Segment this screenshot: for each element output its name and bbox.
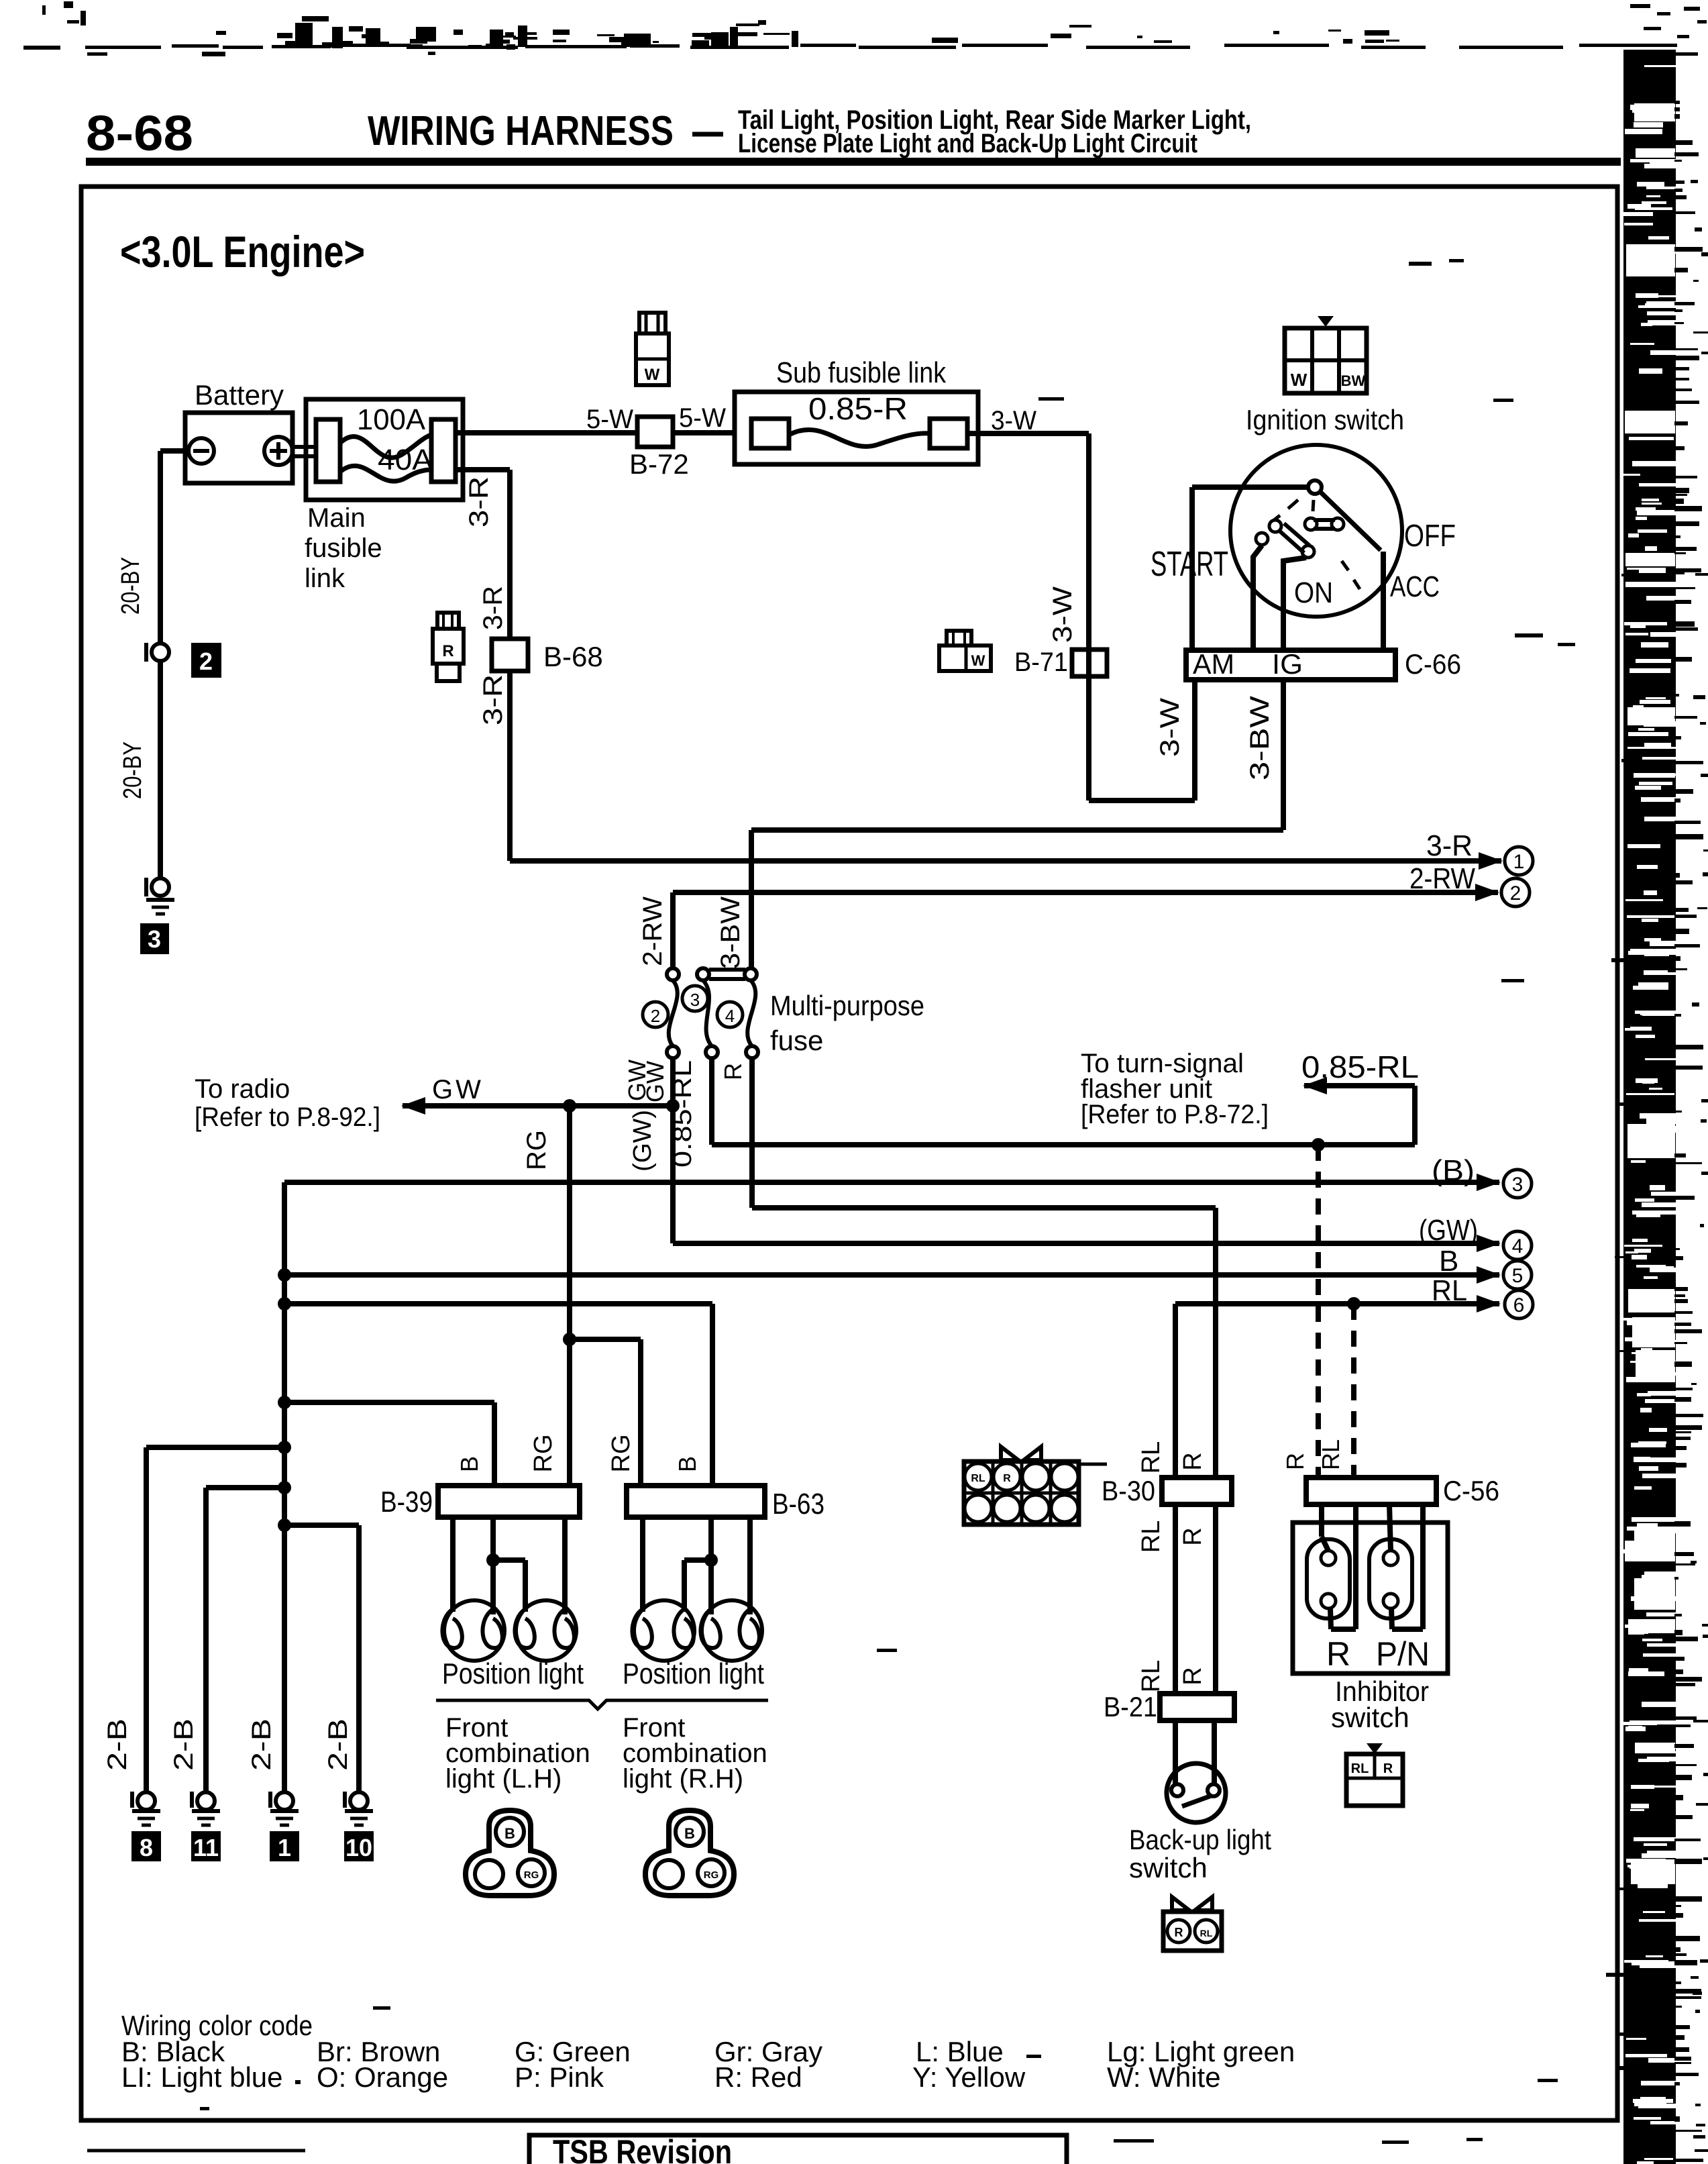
svg-text:B-30: B-30 xyxy=(1102,1475,1155,1506)
svg-text:Multi-purpose: Multi-purpose xyxy=(770,990,924,1021)
svg-text:(B): (B) xyxy=(1432,1154,1475,1187)
svg-text:10: 10 xyxy=(345,1834,372,1861)
svg-text:B-68: B-68 xyxy=(543,641,603,672)
svg-text:3-R: 3-R xyxy=(1426,829,1473,862)
svg-text:3-R: 3-R xyxy=(478,674,508,725)
svg-text:3: 3 xyxy=(690,990,700,1010)
svg-text:B: B xyxy=(504,1825,515,1842)
svg-text:3-BW: 3-BW xyxy=(1245,696,1275,780)
svg-text:(GW): (GW) xyxy=(629,1110,657,1172)
svg-text:fuse: fuse xyxy=(770,1025,823,1056)
svg-text:2-RW: 2-RW xyxy=(1409,862,1475,895)
svg-text:fusible: fusible xyxy=(305,533,382,563)
svg-text:LI: Light blue: LI: Light blue xyxy=(121,2061,283,2093)
svg-text:<3.0L Engine>: <3.0L Engine> xyxy=(120,227,365,276)
svg-text:Position light: Position light xyxy=(442,1657,584,1690)
svg-text:R: R xyxy=(1281,1453,1309,1470)
svg-text:6: 6 xyxy=(1513,1294,1525,1317)
svg-text:P: Pink: P: Pink xyxy=(515,2061,604,2093)
svg-text:1: 1 xyxy=(1513,851,1525,873)
svg-text:B: B xyxy=(456,1456,483,1472)
svg-text:2: 2 xyxy=(199,648,213,675)
svg-text:RG: RG xyxy=(524,1869,539,1881)
svg-text:5: 5 xyxy=(1512,1265,1524,1287)
svg-text:3: 3 xyxy=(1512,1174,1524,1196)
svg-text:4: 4 xyxy=(1512,1235,1524,1257)
svg-text:B-71: B-71 xyxy=(1014,648,1068,677)
svg-text:RL: RL xyxy=(971,1473,985,1484)
svg-text:R: Red: R: Red xyxy=(714,2061,802,2093)
svg-text:2: 2 xyxy=(1510,882,1522,905)
svg-text:ON: ON xyxy=(1294,576,1333,609)
svg-text:RL: RL xyxy=(1137,1660,1165,1693)
svg-text:20-BY: 20-BY xyxy=(117,557,145,615)
svg-text:5-W: 5-W xyxy=(586,405,633,434)
svg-text:40A: 40A xyxy=(378,444,433,476)
svg-text:1: 1 xyxy=(278,1834,291,1861)
svg-text:light (R.H): light (R.H) xyxy=(623,1764,743,1794)
svg-text:P/N: P/N xyxy=(1376,1635,1430,1673)
svg-text:2: 2 xyxy=(651,1006,660,1026)
svg-text:R: R xyxy=(442,642,453,660)
svg-text:AM: AM xyxy=(1193,648,1234,680)
svg-text:switch: switch xyxy=(1331,1702,1409,1733)
svg-text:100A: 100A xyxy=(357,403,426,436)
svg-text:START: START xyxy=(1151,545,1228,584)
svg-text:R: R xyxy=(1326,1635,1350,1673)
svg-text:TSB Revision: TSB Revision xyxy=(553,2133,732,2164)
svg-text:ACC: ACC xyxy=(1390,570,1440,603)
svg-text:C-56: C-56 xyxy=(1443,1475,1499,1506)
svg-text:R: R xyxy=(719,1063,747,1080)
svg-text:11: 11 xyxy=(193,1834,219,1861)
svg-text:W: W xyxy=(1291,370,1307,390)
svg-text:RG: RG xyxy=(522,1130,551,1170)
svg-text:2-B: 2-B xyxy=(247,1718,276,1771)
svg-text:switch: switch xyxy=(1129,1852,1208,1884)
svg-text:[Refer to P.8-92.]: [Refer to P.8-92.] xyxy=(195,1102,380,1132)
svg-text:Y: Yellow: Y: Yellow xyxy=(912,2061,1026,2093)
svg-text:RL: RL xyxy=(1137,1521,1165,1553)
svg-text:3-W: 3-W xyxy=(1048,586,1077,643)
svg-text:Position light: Position light xyxy=(623,1657,764,1690)
svg-text:0.85-R: 0.85-R xyxy=(808,391,908,426)
svg-text:RL: RL xyxy=(1200,1928,1213,1939)
svg-text:IG: IG xyxy=(1272,648,1303,680)
svg-text:W: White: W: White xyxy=(1107,2061,1221,2093)
svg-text:3-W: 3-W xyxy=(991,406,1036,435)
svg-text:Sub fusible link: Sub fusible link xyxy=(776,356,947,389)
svg-text:3: 3 xyxy=(148,925,161,953)
svg-text:4: 4 xyxy=(725,1006,735,1026)
svg-text:3-R: 3-R xyxy=(478,586,508,630)
svg-text:B: B xyxy=(1439,1245,1458,1278)
svg-text:B: B xyxy=(684,1825,695,1842)
svg-text:GW: GW xyxy=(641,1061,669,1102)
svg-text:Battery: Battery xyxy=(195,379,284,411)
svg-text:R: R xyxy=(1179,1452,1207,1470)
svg-text:8: 8 xyxy=(140,1834,153,1861)
svg-text:GW: GW xyxy=(432,1075,484,1104)
svg-text:link: link xyxy=(305,564,345,593)
svg-text:License Plate Light and Back-U: License Plate Light and Back-Up Light Ci… xyxy=(738,129,1197,158)
svg-text:B-72: B-72 xyxy=(629,448,689,480)
svg-text:RL: RL xyxy=(1351,1761,1369,1776)
svg-text:light (L.H): light (L.H) xyxy=(445,1764,562,1794)
svg-text:2-B: 2-B xyxy=(169,1718,199,1771)
svg-text:RL: RL xyxy=(1137,1441,1165,1474)
svg-text:Main: Main xyxy=(307,503,366,533)
svg-text:B-39: B-39 xyxy=(380,1486,433,1518)
svg-text:0.85-RL: 0.85-RL xyxy=(669,1060,697,1168)
svg-text:RL: RL xyxy=(1432,1274,1467,1307)
svg-text:2-B: 2-B xyxy=(103,1718,132,1771)
svg-text:[Refer to P.8-72.]: [Refer to P.8-72.] xyxy=(1081,1100,1269,1129)
svg-text:BW: BW xyxy=(1341,372,1366,389)
svg-text:B-21: B-21 xyxy=(1104,1691,1157,1722)
svg-text:W: W xyxy=(645,366,660,384)
svg-text:Ignition switch: Ignition switch xyxy=(1246,404,1404,435)
svg-text:3-BW: 3-BW xyxy=(716,896,745,969)
svg-text:R: R xyxy=(1175,1926,1183,1939)
svg-text:2-RW: 2-RW xyxy=(638,896,668,966)
svg-text:2-B: 2-B xyxy=(323,1718,353,1771)
svg-text:R: R xyxy=(1003,1473,1011,1484)
svg-text:B-63: B-63 xyxy=(772,1488,824,1521)
svg-text:R: R xyxy=(1179,1667,1207,1685)
svg-text:3-R: 3-R xyxy=(464,476,494,527)
svg-text:RL: RL xyxy=(1317,1439,1344,1470)
svg-text:5-W: 5-W xyxy=(679,403,726,433)
svg-text:RG: RG xyxy=(529,1435,557,1473)
svg-text:O: Orange: O: Orange xyxy=(317,2061,448,2093)
svg-text:R: R xyxy=(1179,1527,1207,1545)
svg-text:B: B xyxy=(674,1456,701,1472)
svg-text:8-68: 8-68 xyxy=(86,105,193,161)
svg-text:C-66: C-66 xyxy=(1405,648,1461,680)
svg-text:RG: RG xyxy=(607,1435,635,1473)
svg-text:WIRING HARNESS: WIRING HARNESS xyxy=(368,108,674,154)
svg-text:Back-up light: Back-up light xyxy=(1129,1824,1271,1855)
svg-text:3-W: 3-W xyxy=(1155,698,1185,757)
svg-text:W: W xyxy=(971,652,985,669)
svg-text:RG: RG xyxy=(704,1869,719,1881)
svg-text:R: R xyxy=(1383,1761,1393,1776)
svg-text:0.85-RL: 0.85-RL xyxy=(1301,1049,1419,1084)
svg-text:OFF: OFF xyxy=(1404,518,1456,553)
svg-text:(GW): (GW) xyxy=(1419,1214,1478,1247)
svg-text:To radio: To radio xyxy=(195,1074,290,1104)
svg-text:20-BY: 20-BY xyxy=(119,741,147,799)
